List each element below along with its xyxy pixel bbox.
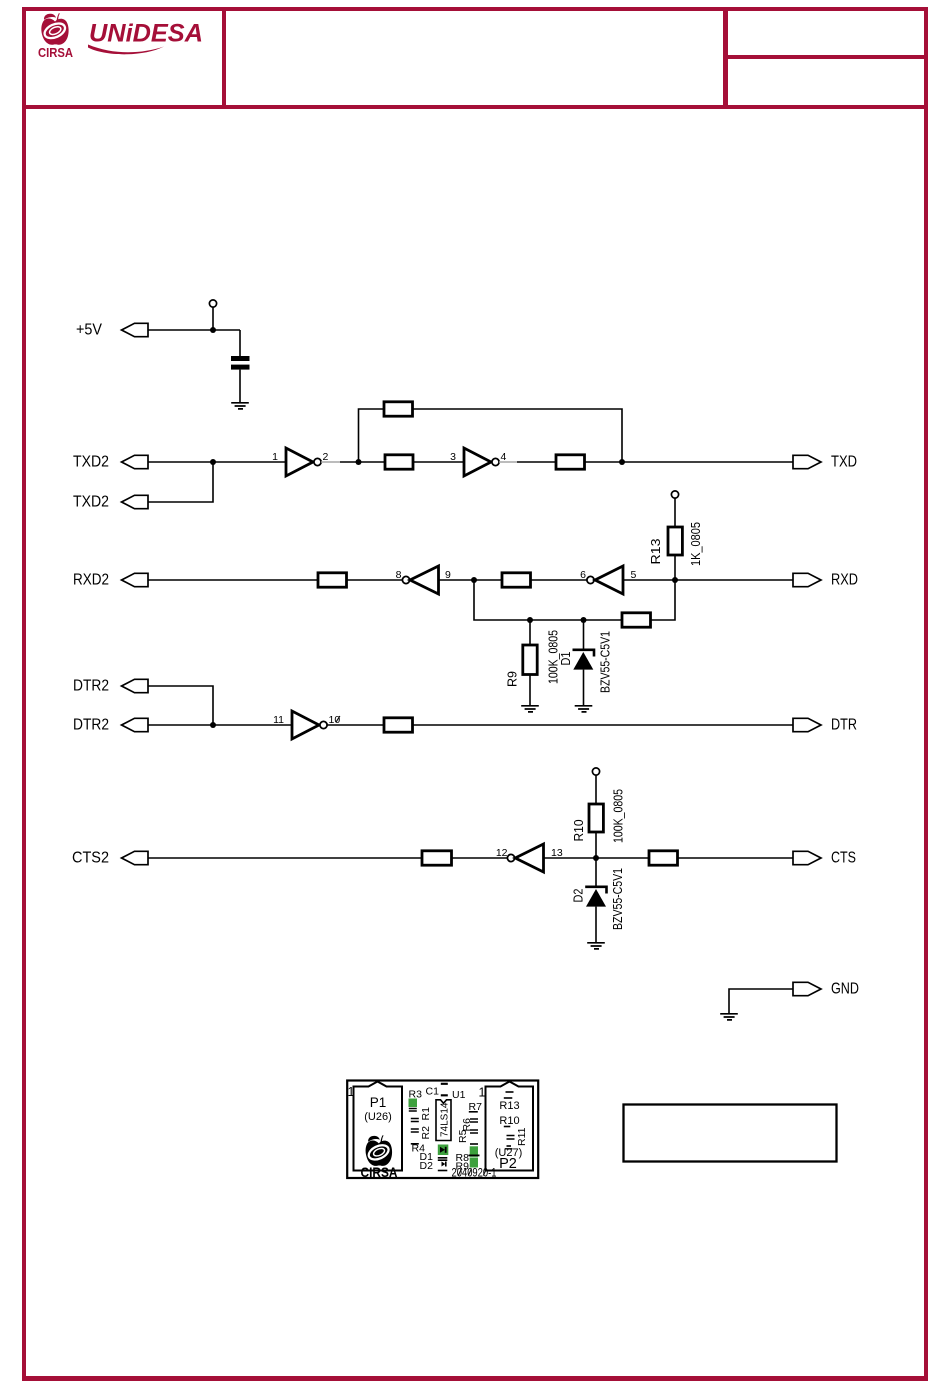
- pin 10: [329, 714, 341, 726]
- wire DTR2 row1 to junction: [148, 686, 213, 725]
- svg-text:11: 11: [273, 714, 284, 726]
- wire D2 to ground: [595, 907, 597, 942]
- svg-text:P1: P1: [370, 1095, 387, 1110]
- connector P2 outline: [486, 1082, 534, 1171]
- pads D2: [438, 1158, 448, 1160]
- RXD output connector: [793, 572, 858, 589]
- wire R9 to ground: [529, 675, 531, 706]
- svg-text:1: 1: [272, 451, 278, 463]
- svg-text:R13: R13: [499, 1100, 519, 1112]
- svg-text:1: 1: [348, 1085, 355, 1099]
- junction D1 top: [581, 617, 587, 623]
- wire capacitor to ground: [239, 370, 241, 402]
- diode D1 zener: [573, 650, 595, 670]
- wire gray stub after U1A: [321, 461, 340, 463]
- svg-text:3: 3: [450, 451, 456, 463]
- wire R to U1B: [413, 461, 464, 463]
- pads R2b: [411, 1129, 419, 1132]
- pad line mid: [470, 1143, 478, 1145]
- TXD2 input connector (row 2): [73, 494, 148, 511]
- svg-text:1: 1: [479, 1086, 486, 1100]
- capacitor C1: [231, 356, 250, 370]
- junction R9 top: [527, 617, 533, 623]
- svg-text:6: 6: [580, 569, 586, 581]
- ground (D1): [575, 706, 593, 712]
- wire capacitor drop: [239, 330, 241, 356]
- wire DTR2 row2 to inverter: [148, 724, 292, 726]
- svg-text:RXD: RXD: [831, 572, 858, 589]
- revision box: [624, 1105, 837, 1162]
- pads C1: [441, 1084, 448, 1096]
- wire CTS2 to R: [148, 857, 422, 859]
- label R10 silk: [499, 1115, 519, 1127]
- wire R to DTR output: [413, 724, 794, 726]
- svg-text:D2: D2: [420, 1160, 434, 1172]
- wire D1 to ground: [583, 670, 585, 705]
- op-amp U1A inverter pins 1-2: [286, 448, 321, 476]
- resistor clamp rail: [622, 613, 651, 627]
- pad separator: [469, 1154, 480, 1156]
- svg-text:BZV55-C5V1: BZV55-C5V1: [610, 868, 625, 930]
- wire U1B to R series 2: [517, 461, 556, 463]
- wire GND to output: [729, 989, 793, 1013]
- wire U1E to R: [327, 724, 384, 726]
- label 2040920-1: [452, 1166, 497, 1180]
- PCB assembly drawing outline: [347, 1081, 538, 1179]
- junction RXD clamp left: [471, 577, 477, 583]
- resistor TXD series 2: [556, 455, 585, 469]
- svg-text:CIRSA: CIRSA: [38, 45, 74, 60]
- label R4: [411, 1143, 425, 1155]
- op-amp U1D inverter pins 6-5: [587, 566, 623, 594]
- wire R10 to line: [595, 832, 597, 858]
- resistor RXD series 2: [502, 573, 531, 587]
- pads R6: [470, 1130, 478, 1133]
- +5V power input connector: [76, 322, 148, 339]
- resistor R13: [668, 527, 682, 555]
- pads R2: [411, 1119, 419, 1122]
- wire main to R series 1: [359, 461, 386, 463]
- svg-text:TXD: TXD: [831, 454, 857, 471]
- ground (C1): [231, 403, 249, 409]
- resistor R10: [589, 804, 603, 832]
- wire D2 drop: [595, 858, 597, 886]
- svg-text:(U26): (U26): [364, 1111, 392, 1123]
- pads R5: [470, 1119, 478, 1122]
- svg-text:C1: C1: [426, 1086, 440, 1098]
- svg-text:UNiDESA: UNiDESA: [89, 20, 203, 48]
- wire feedback rail: [359, 409, 623, 462]
- svg-text:GND: GND: [831, 981, 859, 998]
- junction feedback left: [356, 459, 362, 465]
- wire TXD2 row2 to junction: [148, 462, 213, 502]
- svg-text:74LS14: 74LS14: [440, 1102, 451, 1137]
- wire gray stub after U1B: [499, 461, 517, 463]
- resistor TXD series 1: [385, 455, 413, 469]
- svg-text:R11: R11: [516, 1127, 528, 1146]
- IC U1 74LS14 outline: [436, 1100, 451, 1141]
- pads R11: [507, 1136, 515, 1140]
- DTR2 input connector (row 2): [73, 717, 148, 734]
- wire R9 drop: [529, 620, 531, 645]
- svg-text:R1: R1: [420, 1107, 432, 1121]
- wire R13 to line: [674, 555, 676, 580]
- RXD2 input connector: [73, 572, 148, 589]
- svg-text:DTR2: DTR2: [73, 717, 109, 734]
- svg-text:P2: P2: [499, 1156, 517, 1172]
- svg-text:D2: D2: [571, 889, 586, 903]
- pad small: [507, 1145, 512, 1147]
- wire D1 drop: [583, 620, 585, 649]
- node R13 open terminal: [671, 491, 678, 527]
- resistor R9: [523, 645, 537, 675]
- svg-text:+5V: +5V: [76, 322, 102, 339]
- DTR2 input connector (row 1): [73, 678, 148, 695]
- wire +5V horizontal: [148, 329, 240, 331]
- junction RXD R13 node: [672, 577, 678, 583]
- ground (R9): [521, 706, 539, 712]
- wire U1A to feedback node: [340, 461, 359, 463]
- CIRSA apple silkscreen: [366, 1135, 392, 1166]
- op-amp U1F inverter pins 12-13: [507, 844, 543, 872]
- svg-text:1K_0805: 1K_0805: [688, 522, 703, 566]
- svg-text:R5: R5: [457, 1129, 469, 1143]
- svg-text:DTR: DTR: [831, 717, 857, 734]
- svg-text:R13: R13: [648, 539, 663, 565]
- label R13 silk: [499, 1098, 519, 1112]
- node +5V open terminal: [209, 300, 216, 330]
- junction +5V node: [210, 327, 216, 333]
- svg-text:CTS2: CTS2: [72, 850, 109, 867]
- wire U1F to CTS output: [544, 857, 794, 859]
- CTS output connector: [793, 850, 856, 867]
- wire U1C to R: [439, 579, 503, 581]
- op-amp U1C inverter pins 8-9: [402, 566, 438, 594]
- op-amp U1B inverter pins 3-4: [464, 448, 499, 476]
- svg-text:TXD2: TXD2: [73, 454, 109, 471]
- label (U27): [495, 1147, 523, 1159]
- wire RXD clamp rail: [474, 580, 675, 620]
- junction feedback right: [619, 459, 625, 465]
- svg-text:TXD2: TXD2: [73, 494, 109, 511]
- TXD2 input connector (row 1): [73, 454, 148, 471]
- op-amp U1E inverter pins 11-10: [292, 711, 327, 739]
- svg-text:R2: R2: [420, 1126, 432, 1140]
- node R10 open terminal: [592, 768, 599, 804]
- TXD output connector: [793, 454, 857, 471]
- ground (D2): [587, 943, 605, 949]
- CTS2 input connector: [72, 850, 148, 867]
- resistor feedback top: [384, 402, 413, 416]
- pad R3 green: [409, 1099, 418, 1108]
- label R7: [469, 1101, 483, 1113]
- svg-text:R10: R10: [499, 1115, 519, 1127]
- svg-text:U1: U1: [452, 1089, 466, 1101]
- UNIDESA wordmark: [88, 20, 203, 55]
- wire RXD2 to R: [148, 579, 318, 581]
- pads R1: [409, 1109, 417, 1112]
- resistor DTR series: [384, 718, 413, 732]
- svg-text:100K_0805: 100K_0805: [611, 789, 626, 843]
- connector P1 outline: [354, 1082, 403, 1171]
- svg-text:RXD2: RXD2: [73, 572, 109, 589]
- wire TXD2 row1 to inverter: [148, 461, 286, 463]
- diode D2 zener: [585, 887, 606, 907]
- svg-text:2040920-1: 2040920-1: [452, 1166, 497, 1180]
- svg-text:8: 8: [396, 569, 402, 581]
- svg-text:BZV55-C5V1: BZV55-C5V1: [598, 631, 613, 693]
- wire R to U1D: [531, 579, 587, 581]
- diode D1 pad green: [438, 1145, 449, 1156]
- wire U1D to RXD output: [623, 579, 793, 581]
- junction CTS clamp node: [593, 855, 599, 861]
- resistor CTS series 2: [649, 851, 678, 865]
- svg-text:R6: R6: [461, 1118, 473, 1132]
- wire R to U1F: [452, 857, 508, 859]
- svg-text:12: 12: [496, 847, 508, 859]
- pad under notch P2: [506, 1091, 514, 1093]
- DTR output connector: [793, 717, 857, 734]
- diode D2 glyph: [438, 1162, 448, 1171]
- svg-text:D1: D1: [558, 652, 573, 666]
- svg-text:DTR2: DTR2: [73, 678, 109, 695]
- junction DTR2 node: [210, 722, 216, 728]
- wire R to U1C: [347, 579, 403, 581]
- CIRSA apple logo: [38, 13, 74, 60]
- resistor RXD series 1: [318, 573, 347, 587]
- wire to TXD output: [585, 461, 794, 463]
- svg-text:R9: R9: [505, 671, 520, 687]
- svg-text:CTS: CTS: [831, 850, 856, 867]
- svg-text:R10: R10: [571, 820, 586, 842]
- svg-text:CIRSA: CIRSA: [361, 1164, 398, 1180]
- junction TXD2 node: [210, 459, 216, 465]
- ground (GND net): [720, 1014, 738, 1020]
- pad R8 green: [470, 1146, 478, 1157]
- GND output connector: [793, 981, 859, 998]
- resistor CTS series 1: [422, 851, 452, 865]
- pad R9 green: [470, 1158, 478, 1168]
